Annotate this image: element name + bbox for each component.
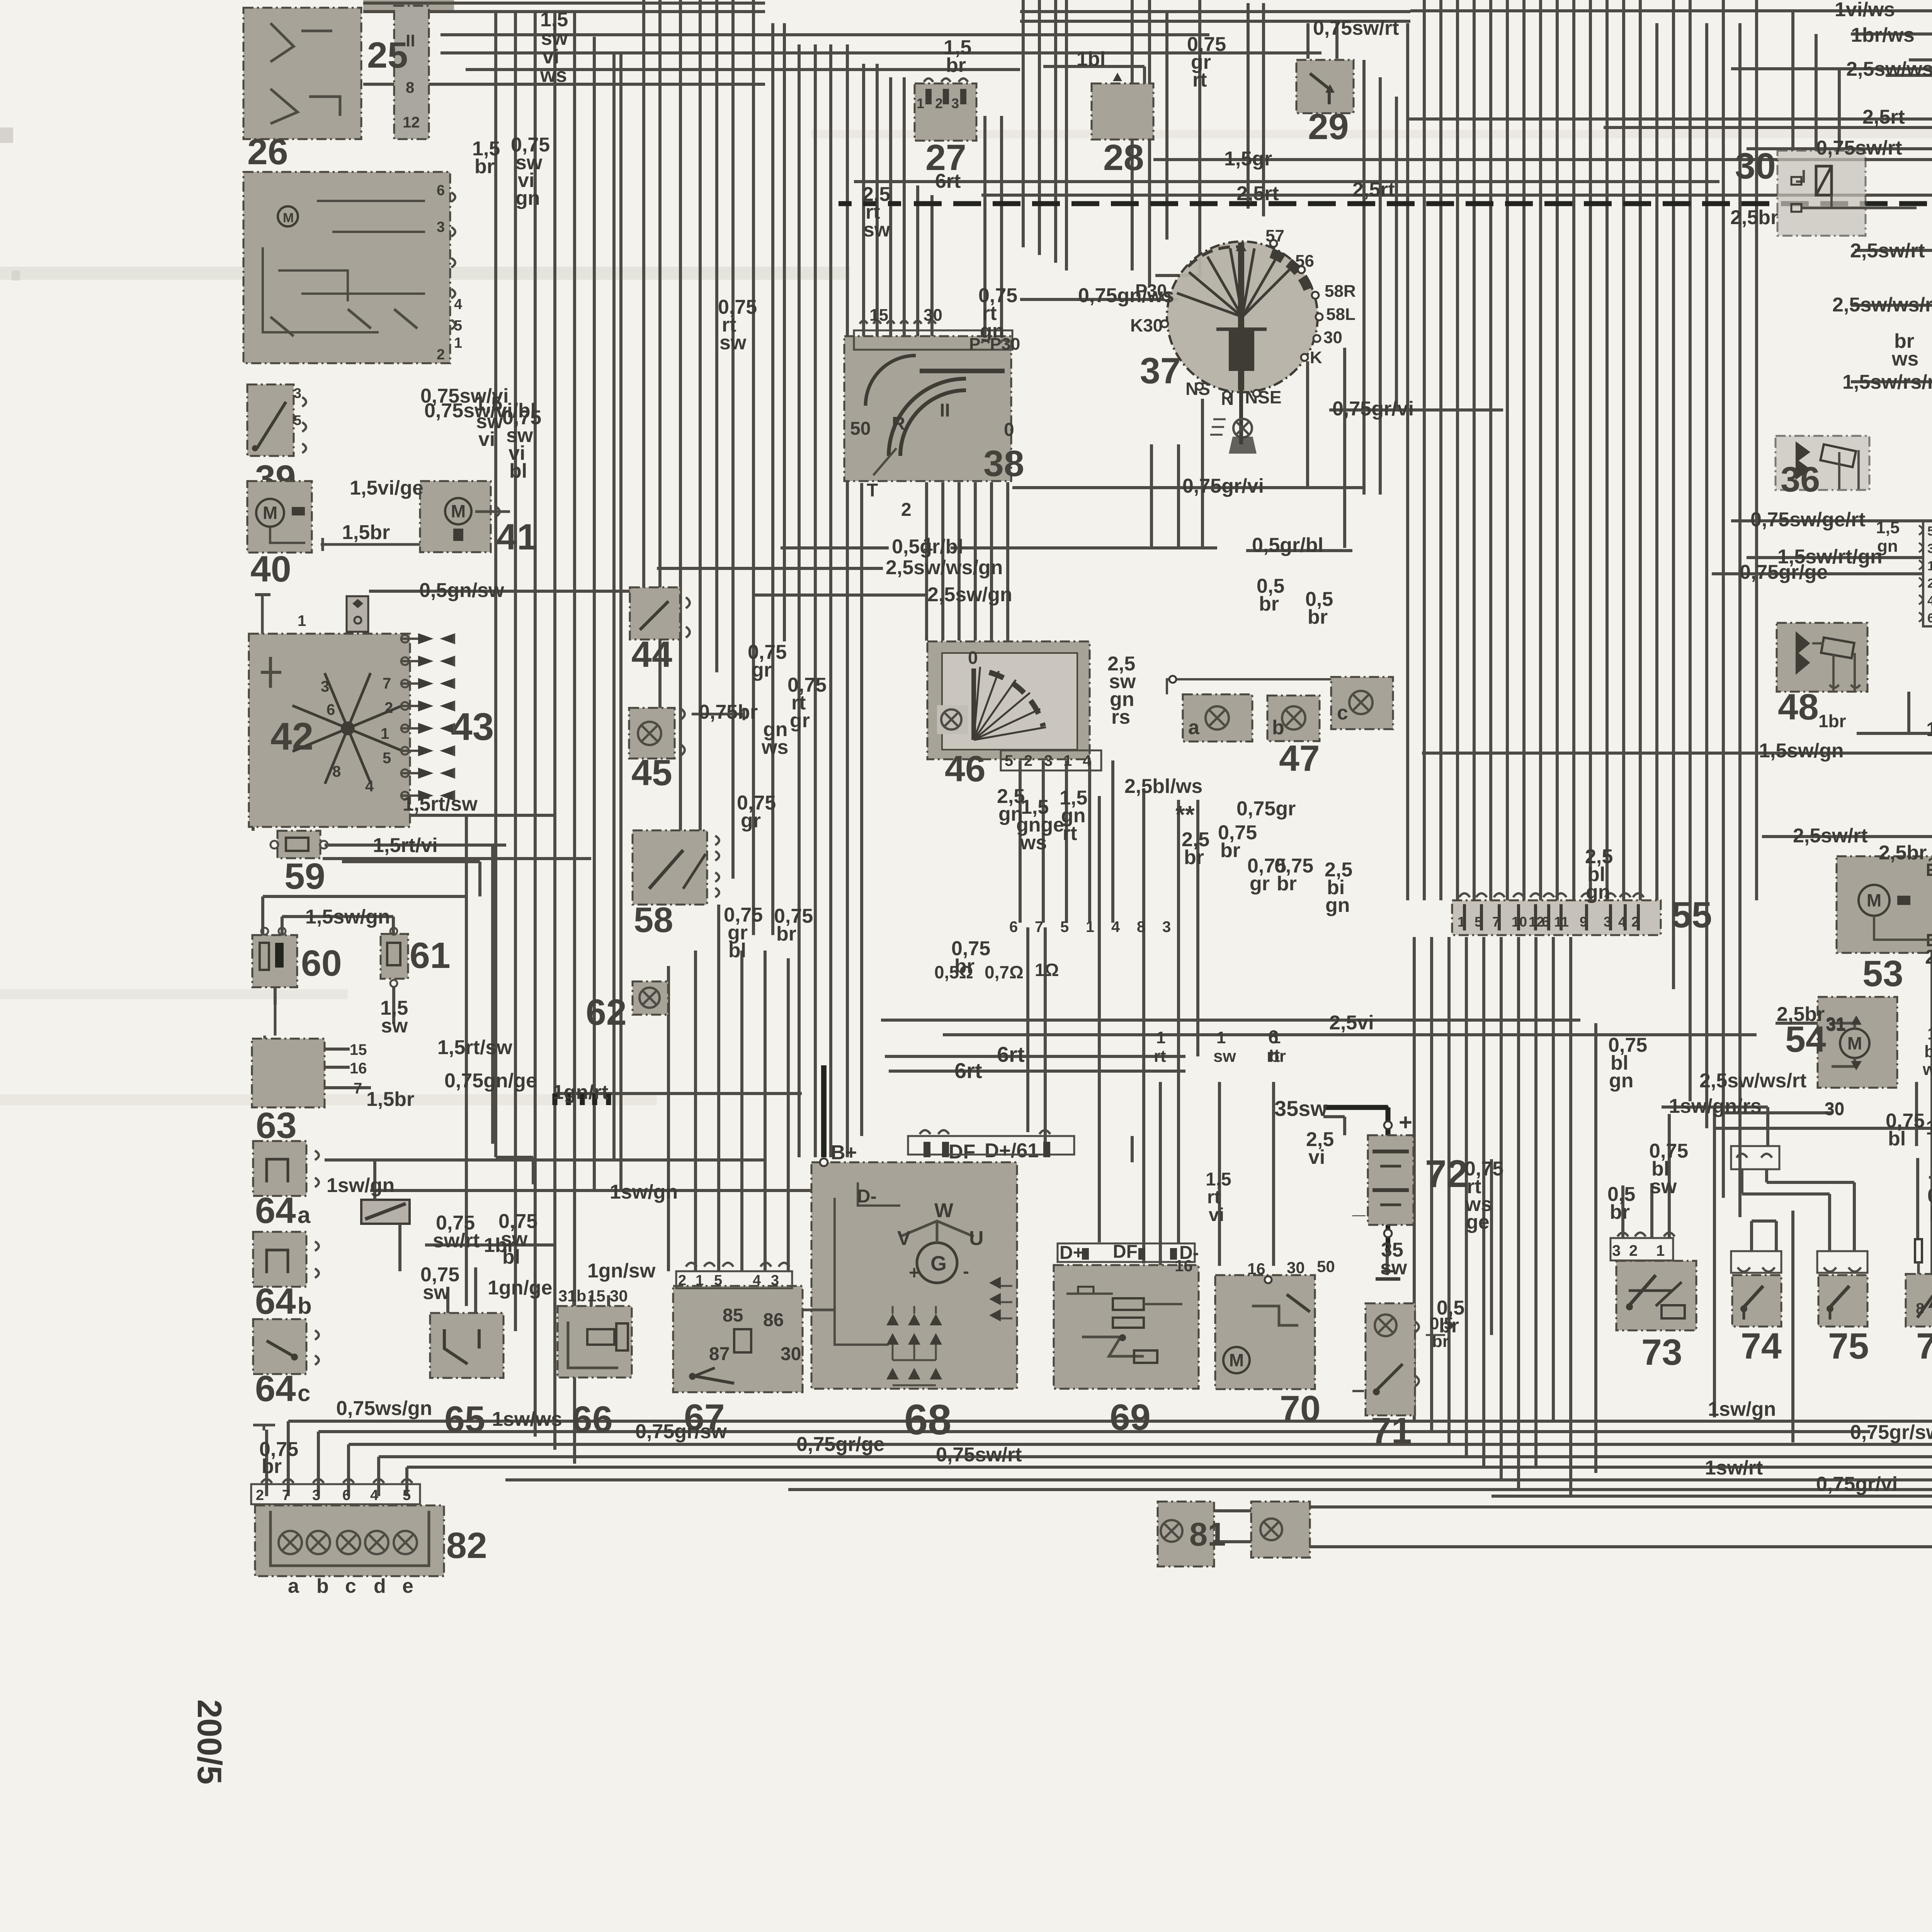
svg-text:2,5sw/ws/rt: 2,5sw/ws/rt [1832,294,1932,316]
svg-text:II: II [940,400,950,421]
svg-text:86: 86 [763,1310,784,1330]
svg-text:2: 2 [1629,1242,1638,1259]
svg-text:G: G [930,1252,947,1275]
svg-text:55: 55 [1671,895,1712,935]
svg-text:0,5gr/bl: 0,5gr/bl [892,536,963,558]
svg-text:1Ω: 1Ω [1035,960,1059,980]
svg-text:br: br [1269,1047,1286,1066]
svg-text:b: b [298,1293,312,1319]
svg-text:60: 60 [301,943,342,984]
svg-text:1,5sw/rs/rt: 1,5sw/rs/rt [1842,371,1932,393]
svg-text:2,5sw/ws/rt: 2,5sw/ws/rt [1699,1070,1806,1092]
svg-text:ws: ws [1020,832,1047,854]
svg-text:1bl: 1bl [1927,853,1932,876]
svg-text:4: 4 [1111,918,1120,935]
svg-text:br: br [262,1455,282,1478]
svg-text:6rt: 6rt [935,170,961,192]
svg-text:+: + [909,1263,920,1283]
svg-text:1bl: 1bl [1077,48,1105,70]
svg-text:58: 58 [634,900,673,940]
svg-text:3: 3 [771,1272,779,1289]
svg-text:2,5br: 2,5br [1879,842,1927,864]
svg-text:0,7Ω: 0,7Ω [985,962,1024,982]
svg-text:1sw/vi: 1sw/vi [1926,718,1932,741]
svg-text:74: 74 [1741,1326,1782,1367]
svg-text:1: 1 [917,95,924,111]
svg-text:4: 4 [370,1487,378,1503]
svg-text:53: 53 [1862,953,1903,994]
svg-text:1: 1 [1927,559,1932,573]
svg-text:2,5br: 2,5br [1730,206,1778,229]
svg-text:br: br [946,54,966,77]
svg-text:12: 12 [403,114,420,131]
svg-text:b: b [316,1575,329,1597]
svg-text:6: 6 [1009,918,1018,935]
svg-text:38: 38 [983,443,1024,484]
svg-text:a: a [1188,716,1200,739]
svg-text:16: 16 [1175,1257,1193,1275]
svg-text:br: br [776,923,796,945]
svg-text:V: V [897,1227,911,1250]
svg-text:ge: ge [1466,1211,1490,1233]
svg-text:d: d [374,1575,386,1597]
svg-text:0,75gn/ws: 0,75gn/ws [1078,284,1174,307]
svg-text:br: br [1930,1202,1932,1225]
svg-text:gn: gn [515,187,540,209]
svg-text:NSE: NSE [1245,387,1282,407]
svg-text:vi: vi [1209,1205,1224,1225]
svg-text:64: 64 [255,1368,296,1409]
svg-text:1: 1 [1156,1028,1165,1047]
svg-text:1,5br: 1,5br [366,1088,414,1111]
svg-text:15: 15 [587,1287,605,1305]
svg-text:bl: bl [728,939,746,962]
svg-text:1sw/rt: 1sw/rt [1705,1457,1763,1479]
svg-text:0,5gr/bl: 0,5gr/bl [1252,534,1323,556]
svg-text:6: 6 [342,1487,350,1503]
svg-text:69: 69 [1110,1397,1151,1438]
svg-text:65: 65 [444,1399,485,1440]
svg-text:72: 72 [1425,1152,1468,1196]
svg-text:1: 1 [381,725,389,742]
svg-text:R: R [892,413,905,434]
svg-text:ws: ws [1891,348,1918,370]
svg-text:B+: B+ [831,1141,857,1164]
svg-text:7: 7 [354,1080,362,1097]
svg-text:1,5: 1,5 [1876,518,1900,537]
svg-text:7: 7 [282,1487,290,1503]
svg-text:1: 1 [298,612,306,629]
svg-text:sw: sw [1380,1257,1407,1279]
svg-text:rt: rt [1192,69,1207,91]
svg-text:2,5bl/ws: 2,5bl/ws [1124,775,1202,798]
svg-text:31: 31 [1826,1015,1846,1035]
svg-text:2,5rt: 2,5rt [1862,106,1905,128]
svg-text:br: br [1308,606,1328,628]
svg-text:0,75sw/ge/rt: 0,75sw/ge/rt [1750,509,1866,531]
svg-text:0,75gr/vi: 0,75gr/vi [1816,1473,1898,1495]
svg-text:4: 4 [1083,752,1092,769]
svg-text:30: 30 [610,1287,628,1305]
svg-text:M: M [1229,1350,1244,1370]
svg-text:sw: sw [1650,1175,1677,1198]
svg-text:br: br [1259,593,1279,615]
svg-text:15: 15 [869,306,888,325]
svg-text:1: 1 [1086,918,1094,935]
svg-text:bl: bl [1888,1128,1906,1150]
svg-text:0,75ws/gn: 0,75ws/gn [336,1397,432,1420]
svg-text:48: 48 [1778,687,1819,728]
svg-text:DF: DF [949,1141,975,1163]
svg-text:sw/rt: sw/rt [433,1230,480,1252]
svg-text:vi: vi [478,428,495,451]
svg-text:28: 28 [1103,137,1144,178]
svg-text:2: 2 [256,1487,264,1503]
svg-text:30: 30 [1735,146,1776,187]
svg-text:1gn/rs: 1gn/rs [1926,1117,1932,1139]
svg-text:43: 43 [451,705,494,748]
svg-text:D-: D- [857,1186,877,1207]
svg-text:75: 75 [1828,1326,1869,1367]
svg-text:3: 3 [1927,541,1932,556]
svg-text:gr: gr [790,709,810,732]
svg-text:2: 2 [437,347,445,363]
svg-text:30: 30 [781,1344,801,1364]
svg-text:44: 44 [631,634,672,675]
svg-text:26: 26 [247,131,288,172]
svg-text:2: 2 [384,699,393,716]
svg-text:1sw/gn: 1sw/gn [327,1174,395,1197]
svg-text:gr: gr [1250,872,1270,895]
svg-text:M: M [283,211,294,225]
svg-text:br: br [1610,1201,1630,1223]
svg-text:T: T [867,480,878,501]
svg-text:70: 70 [1280,1388,1321,1429]
svg-text:0,75gr/ge: 0,75gr/ge [1740,561,1828,583]
svg-text:68: 68 [904,1396,951,1444]
svg-text:2,5vi: 2,5vi [1329,1012,1374,1034]
svg-text:66: 66 [572,1399,613,1440]
svg-text:1: 1 [1927,1024,1932,1043]
svg-text:0: 0 [1004,420,1014,440]
svg-text:1sw/gn/rs: 1sw/gn/rs [1669,1095,1762,1117]
svg-text:3: 3 [294,385,301,401]
svg-text:2,5sw: 2,5sw [1925,946,1932,968]
svg-text:e: e [402,1575,413,1597]
svg-text:25: 25 [367,35,408,76]
svg-text:0,75gr/ge: 0,75gr/ge [796,1433,884,1456]
svg-text:5: 5 [1005,752,1013,769]
svg-text:6rt: 6rt [997,1042,1025,1066]
svg-text:3: 3 [1162,918,1171,935]
svg-text:2,5rt: 2,5rt [1236,182,1279,205]
svg-text:2: 2 [1927,576,1932,591]
svg-text:gn: gn [1609,1070,1634,1092]
svg-text:2: 2 [1024,752,1032,769]
svg-text:**: ** [1175,801,1195,828]
svg-text:bl: bl [509,460,527,482]
svg-text:0,75gr/vi: 0,75gr/vi [1182,475,1264,497]
svg-text:82: 82 [446,1525,487,1566]
svg-text:71: 71 [1371,1410,1412,1451]
svg-text:sw: sw [719,332,747,354]
svg-text:76: 76 [1916,1326,1932,1367]
svg-text:1gn/rt: 1gn/rt [553,1081,608,1104]
svg-text:1: 1 [454,335,462,351]
svg-text:64: 64 [255,1281,296,1322]
svg-text:0,75sw/vi/bl: 0,75sw/vi/bl [424,400,536,422]
svg-text:15: 15 [350,1041,367,1058]
svg-text:br: br [1184,846,1204,869]
svg-text:gn: gn [1325,894,1350,917]
svg-text:sw: sw [863,219,890,241]
svg-text:50: 50 [850,418,871,439]
svg-text:gr: gr [741,810,761,832]
svg-text:a: a [298,1202,311,1228]
svg-text:1br: 1br [1818,711,1846,731]
svg-text:8: 8 [406,79,414,96]
svg-text:5: 5 [1927,524,1932,539]
svg-text:16: 16 [350,1060,367,1077]
svg-text:1: 1 [1216,1028,1226,1047]
svg-text:sw: sw [1213,1047,1236,1066]
svg-text:1: 1 [1271,1028,1281,1047]
svg-text:0,75sw/rt: 0,75sw/rt [936,1444,1022,1466]
svg-text:41: 41 [497,517,537,558]
svg-text:31b: 31b [558,1287,586,1305]
svg-text:8: 8 [1137,918,1145,935]
svg-text:c: c [298,1380,310,1406]
svg-text:5: 5 [403,1487,411,1503]
svg-text:D+/61: D+/61 [985,1139,1039,1162]
svg-text:5: 5 [454,318,462,334]
svg-text:P: P [969,335,980,354]
svg-text:2,5br: 2,5br [1777,1003,1825,1026]
svg-text:1,5rt/sw: 1,5rt/sw [437,1036,512,1059]
svg-text:1,5sw/gn: 1,5sw/gn [305,906,390,928]
svg-text:0,75gr/sw: 0,75gr/sw [635,1420,727,1443]
svg-text:0,75gr/sw: 0,75gr/sw [1850,1421,1932,1444]
svg-text:2,5rt: 2,5rt [1352,179,1395,201]
svg-text:1br/ws: 1br/ws [1851,24,1915,46]
svg-text:1sw/gn: 1sw/gn [610,1181,678,1203]
svg-text:37: 37 [1140,350,1181,391]
svg-text:+: + [1399,1109,1412,1135]
svg-text:16: 16 [1247,1260,1265,1278]
svg-text:br: br [474,155,495,178]
svg-text:W: W [934,1199,954,1222]
svg-text:0,5Ω: 0,5Ω [934,962,973,982]
svg-text:0,75sw/rt: 0,75sw/rt [1816,137,1902,159]
svg-text:81: 81 [1189,1516,1226,1553]
svg-text:62: 62 [586,992,627,1033]
svg-text:3: 3 [312,1487,320,1503]
svg-text:3: 3 [437,219,445,235]
svg-text:2: 2 [678,1272,686,1289]
svg-text:50: 50 [1317,1257,1335,1276]
svg-text:29: 29 [1308,106,1349,147]
svg-text:1: 1 [696,1272,704,1289]
svg-text:1,5br: 1,5br [342,521,390,544]
svg-text:gn: gn [1586,881,1611,903]
svg-text:br: br [1924,1042,1932,1061]
svg-text:c: c [345,1575,356,1597]
svg-text:1: 1 [1656,1242,1665,1259]
svg-text:ws: ws [1922,1060,1932,1079]
svg-text:5: 5 [714,1272,722,1289]
svg-text:M: M [451,501,466,521]
svg-text:3: 3 [1044,752,1053,769]
svg-text:61: 61 [410,935,451,976]
svg-text:46: 46 [945,748,986,789]
svg-text:1,5sw/gn: 1,5sw/gn [1759,740,1844,762]
svg-text:_: _ [1352,1192,1366,1218]
svg-text:vi: vi [1308,1146,1325,1168]
svg-text:1: 1 [1063,752,1072,769]
svg-text:1gn/sw: 1gn/sw [587,1260,656,1282]
svg-text:2,5sw/rt: 2,5sw/rt [1850,240,1925,262]
svg-text:0: 0 [968,648,978,668]
svg-text:ws: ws [761,736,788,759]
svg-text:br: br [1439,1315,1459,1337]
svg-text:6rt: 6rt [954,1058,982,1083]
svg-text:ws: ws [540,64,567,87]
svg-text:1vi/ws: 1vi/ws [1835,0,1895,21]
svg-text:0,75br: 0,75br [699,701,758,723]
svg-text:4: 4 [753,1272,761,1289]
svg-text:0,75gn/ge: 0,75gn/ge [444,1070,537,1092]
svg-text:1br: 1br [484,1234,515,1257]
svg-text:30: 30 [1323,328,1342,347]
svg-text:8: 8 [332,763,341,780]
svg-text:II: II [406,31,415,50]
svg-text:6: 6 [437,182,445,199]
svg-text:sw: sw [381,1015,408,1037]
svg-text:DF: DF [1113,1242,1138,1262]
svg-text:a: a [288,1575,299,1597]
svg-text:3: 3 [1612,1242,1621,1259]
svg-text:2,5sw/gn: 2,5sw/gn [927,583,1012,606]
svg-text:4: 4 [454,296,462,313]
svg-text:K: K [1310,348,1322,367]
svg-text:40: 40 [250,549,291,590]
svg-text:6: 6 [327,701,335,718]
svg-text:1,5rt/vi: 1,5rt/vi [373,834,438,857]
svg-text:br: br [1220,839,1240,862]
svg-text:73: 73 [1641,1332,1682,1373]
svg-text:c: c [1337,702,1348,724]
svg-text:sw: sw [423,1281,450,1304]
svg-text:7: 7 [383,675,391,692]
svg-text:D+: D+ [1060,1243,1084,1263]
svg-text:63: 63 [256,1105,297,1146]
svg-text:1,5gr: 1,5gr [1224,148,1272,170]
svg-text:0,75sw/rt: 0,75sw/rt [1313,17,1399,39]
svg-text:2,5sw/ws: 2,5sw/ws [1846,58,1932,80]
svg-text:0,5gn/sw: 0,5gn/sw [419,579,504,602]
svg-text:rs: rs [1111,706,1130,728]
svg-text:gn: gn [980,320,1005,342]
svg-text:rt: rt [1063,822,1077,845]
svg-text:0,75gr/vi: 0,75gr/vi [1332,398,1414,420]
svg-text:M: M [263,503,277,523]
svg-text:45: 45 [631,752,672,793]
svg-text:42: 42 [270,715,313,758]
svg-text:59: 59 [284,856,325,897]
svg-text:U: U [969,1227,984,1250]
svg-text:4: 4 [1927,594,1932,608]
svg-text:30: 30 [923,306,942,325]
svg-text:M: M [1867,890,1881,910]
svg-text:85: 85 [723,1305,743,1326]
svg-text:200/5: 200/5 [190,1699,229,1784]
svg-text:K30: K30 [1130,315,1163,335]
svg-text:1gn/ge: 1gn/ge [488,1277,553,1299]
svg-text:64: 64 [255,1190,296,1231]
svg-text:8: 8 [1916,1300,1924,1317]
svg-text:1,5vi/ge: 1,5vi/ge [350,477,423,499]
svg-text:0,75gr: 0,75gr [1236,798,1296,820]
svg-text:-: - [963,1261,969,1282]
svg-text:58L: 58L [1326,305,1355,324]
svg-text:2,5sw/ws/gn: 2,5sw/ws/gn [886,556,1003,579]
svg-text:5: 5 [1060,918,1069,935]
svg-text:gr: gr [752,659,772,681]
svg-text:3: 3 [321,678,329,695]
svg-text:M: M [1847,1033,1862,1053]
svg-text:1sw/gn: 1sw/gn [1708,1398,1776,1420]
svg-text:87: 87 [709,1344,730,1364]
svg-text:2: 2 [935,95,943,111]
svg-text:5: 5 [294,412,301,428]
svg-text:br: br [1277,872,1297,895]
svg-text:30: 30 [1287,1259,1305,1277]
svg-text:1,5rt/sw: 1,5rt/sw [403,793,478,815]
svg-text:47: 47 [1279,738,1320,779]
svg-text:3: 3 [951,95,959,111]
svg-text:7: 7 [1035,918,1043,935]
svg-text:4: 4 [365,778,374,795]
svg-text:2: 2 [901,500,912,520]
svg-text:2,5sw/rt: 2,5sw/rt [1793,825,1868,847]
svg-text:35sw: 35sw [1274,1096,1327,1121]
svg-text:rt: rt [1154,1047,1166,1066]
svg-text:58R: 58R [1325,282,1356,301]
svg-text:5: 5 [383,750,391,767]
svg-text:30: 30 [1825,1099,1844,1119]
svg-text:1sw/ws: 1sw/ws [492,1408,562,1430]
svg-text:6: 6 [1927,611,1932,626]
